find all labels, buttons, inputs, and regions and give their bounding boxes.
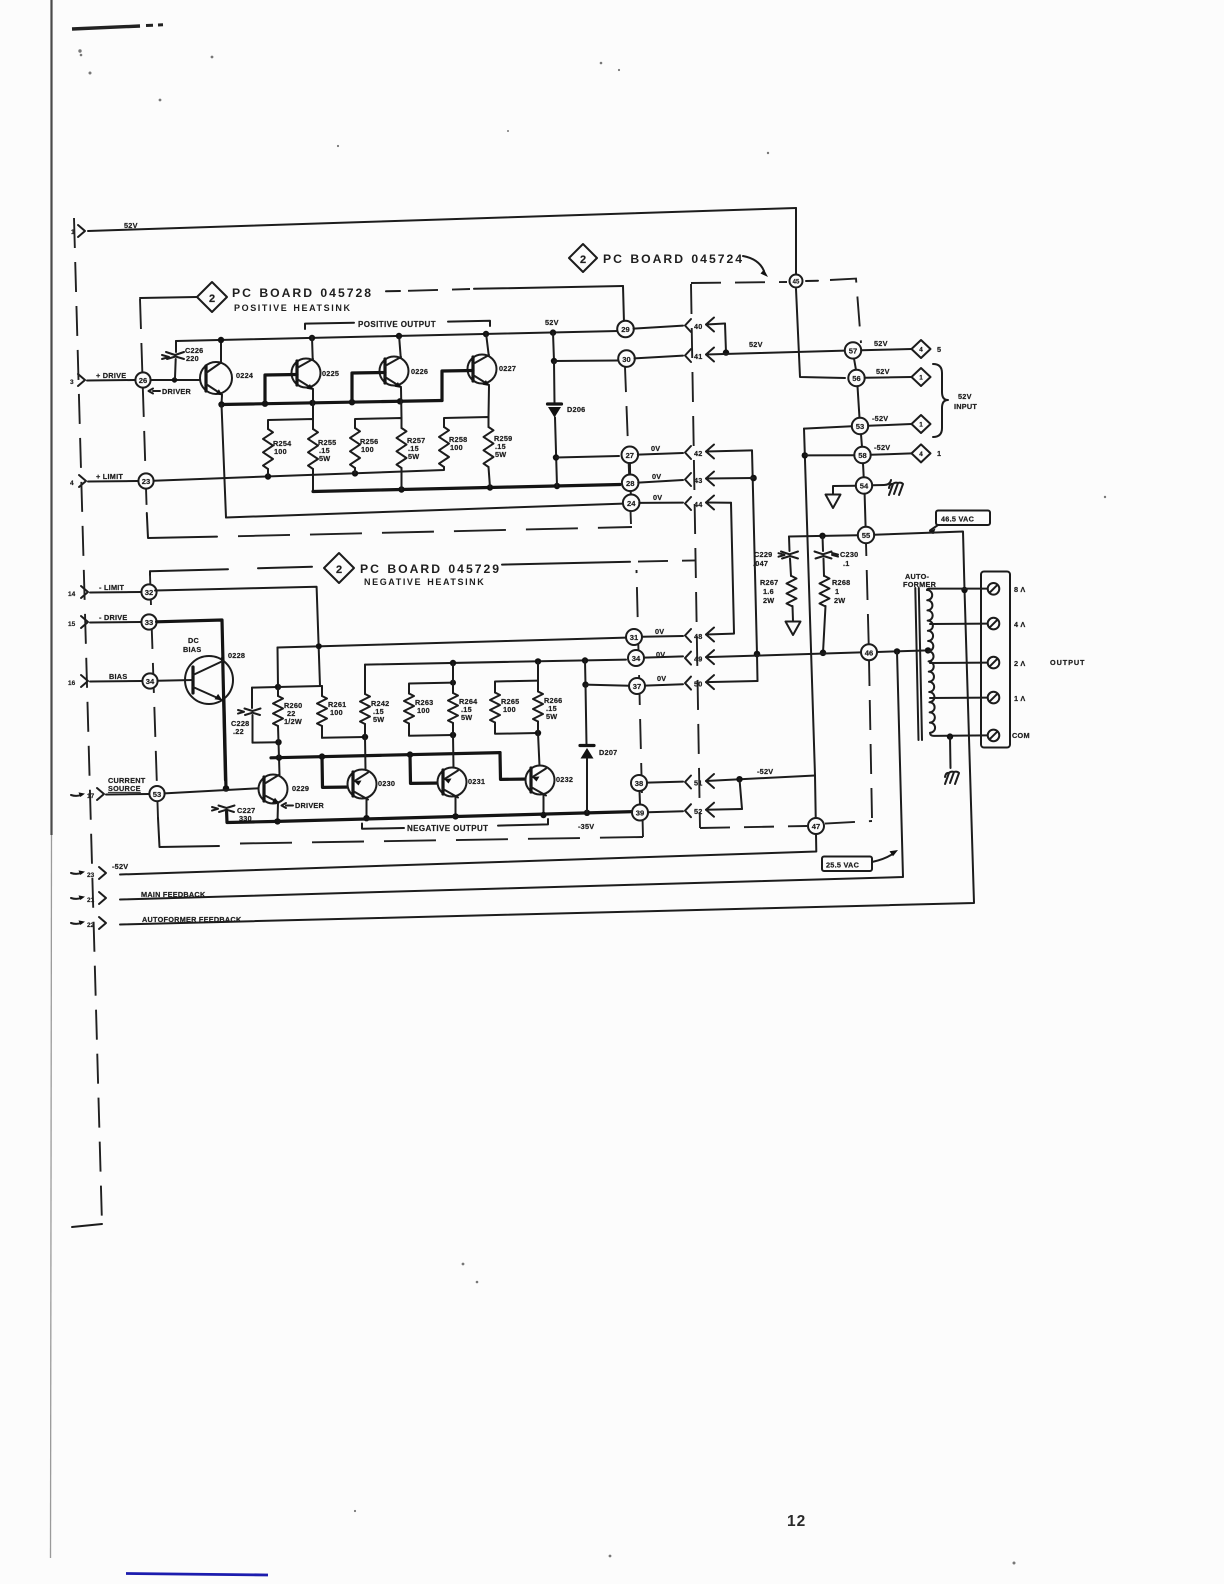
svg-text:100: 100 [417, 706, 430, 715]
svg-text:R268: R268 [832, 578, 850, 587]
svg-text:47: 47 [812, 822, 820, 831]
capacitor C230 .1 [815, 536, 859, 576]
capacitor C226 220 [162, 341, 203, 378]
node 23 [138, 473, 153, 488]
svg-text:52V: 52V [124, 221, 138, 230]
pin 3 connector +DRIVE [70, 371, 126, 386]
dashed bottom edge PC board 045724 [700, 821, 872, 828]
wire Q226 collector lead [399, 335, 401, 357]
svg-text:43: 43 [694, 476, 703, 485]
svg-text:1: 1 [919, 422, 923, 429]
svg-text:52V: 52V [958, 392, 972, 401]
svg-text:PC BOARD 045729: PC BOARD 045729 [360, 562, 501, 576]
svg-text:12: 12 [787, 1513, 806, 1530]
connector arrow 41 [635, 340, 846, 362]
wire pin4 to node 23 [88, 480, 138, 483]
transistor Q230 [348, 770, 396, 800]
wire output bus to node 28 [313, 483, 620, 493]
svg-text:0229: 0229 [292, 784, 309, 793]
svg-text:0231: 0231 [468, 777, 485, 786]
label 46.5 VAC box [928, 511, 991, 535]
svg-text:DC: DC [188, 636, 200, 645]
svg-text:38: 38 [635, 779, 643, 788]
diamond input 4 1 row 58 [912, 444, 942, 462]
label +DRIVER [149, 387, 192, 396]
svg-text:49: 49 [694, 655, 703, 664]
node 28 [622, 475, 639, 492]
wire main feedback riser [120, 651, 903, 899]
node 57 [845, 342, 861, 358]
svg-text:0V: 0V [651, 444, 660, 453]
wire autoformer tap 1 ohm [930, 697, 988, 699]
svg-text:INPUT: INPUT [954, 402, 977, 411]
dashed top edge PC board 045729 [502, 560, 696, 564]
diamond 2 PC BOARD 045729 [150, 553, 501, 587]
pin 4 connector +LIMIT [70, 472, 123, 487]
svg-text:46: 46 [865, 648, 873, 657]
svg-text:-52V: -52V [872, 414, 888, 423]
wire D207 to bottom bus [586, 759, 588, 813]
wire arrow 50 riser to 0V row [756, 654, 759, 681]
svg-text:1.6: 1.6 [763, 587, 774, 596]
resistor R263 100 [404, 694, 433, 724]
dashed boundary into node 45 (PC board 045724 top) [691, 279, 861, 343]
svg-text:NEGATIVE OUTPUT: NEGATIVE OUTPUT [407, 824, 488, 833]
wire Q225 collector lead [311, 337, 314, 359]
terminal 2 ohm [988, 657, 1026, 669]
wire bracket R265 R266 tops [495, 681, 538, 693]
svg-text:100: 100 [330, 708, 343, 717]
svg-text:1 Λ: 1 Λ [1014, 694, 1025, 703]
wire Q227 emitter to resistor bracket [488, 386, 491, 417]
svg-text:-52V: -52V [757, 767, 773, 776]
wire Q225 emitter to resistor bracket [312, 390, 314, 419]
svg-text:2: 2 [580, 254, 586, 266]
bottom blue mark [126, 1574, 268, 1576]
resistor R257 .15 5W [397, 428, 426, 468]
wire riser to Q226 base [352, 373, 385, 403]
earth ground arrow at node 54 [826, 495, 841, 509]
wire R255 bottom lead to output bus [312, 469, 314, 492]
svg-text:52V: 52V [545, 318, 559, 327]
svg-text:MAIN FEEDBACK: MAIN FEEDBACK [141, 890, 206, 899]
svg-text:44: 44 [694, 500, 703, 509]
wire bus R260 top to R261 top [278, 686, 322, 687]
dashed top edge PC board 045728 [386, 286, 623, 291]
svg-text:4: 4 [70, 480, 74, 487]
dashed right edge PC board 045724 [866, 543, 872, 818]
wire pin3 to node 26 [87, 379, 135, 382]
transistor Q228 [185, 651, 245, 780]
svg-text:100: 100 [503, 705, 516, 714]
svg-text:50: 50 [694, 680, 703, 689]
svg-text:52V: 52V [876, 367, 890, 376]
speaker terminal box [981, 572, 1010, 748]
wire R264 top riser [452, 663, 454, 693]
connector arrow 44 [639, 496, 731, 511]
transistor Q231 [438, 768, 486, 798]
svg-text:34: 34 [146, 677, 155, 686]
wire top rail drop to node 45 [795, 208, 797, 274]
node 24 [623, 495, 640, 512]
svg-text:4: 4 [919, 347, 923, 354]
wire Q230 bottom lead [363, 799, 369, 822]
wire R268 bottom to 0V row [820, 606, 827, 656]
node 37 [629, 678, 645, 694]
wire bracket R261 R242 bottoms [322, 734, 368, 740]
svg-text:- DRIVE: - DRIVE [99, 613, 128, 622]
connector arrow 48 [642, 628, 734, 643]
pin 14 connector -LIMIT [68, 583, 125, 598]
svg-text:POSITIVE OUTPUT: POSITIVE OUTPUT [358, 320, 436, 329]
wire pin14 to node 32 [90, 591, 141, 594]
dashed bottom edge PC board 045729 [158, 818, 219, 847]
autoformer winding [927, 590, 935, 733]
resistor R268 1 2W [820, 576, 851, 606]
transistor Q227 [468, 355, 517, 387]
svg-text:-35V: -35V [578, 822, 594, 831]
svg-text:0228: 0228 [228, 651, 245, 660]
svg-text:52: 52 [694, 807, 703, 816]
wire pin16 to node 34 [90, 680, 142, 683]
wire Q226 emitter to resistor bracket [400, 388, 403, 418]
wire node 57 to input diamond 52V [861, 339, 911, 350]
wire R260 top corner to collector rail [277, 648, 280, 688]
dashed right edge PC board 045728 [625, 367, 631, 524]
wire bracket R258 R259 tops [444, 417, 489, 427]
svg-text:1/2W: 1/2W [284, 717, 302, 726]
svg-text:D207: D207 [599, 748, 617, 757]
label AUTO-FORMER [903, 572, 937, 589]
wire D207 anode lead [586, 685, 587, 745]
resistor R261 100 [317, 696, 346, 726]
connector arrow 40 [634, 318, 726, 333]
svg-text:32: 32 [145, 588, 153, 597]
node 33 [141, 614, 156, 629]
resistor R256 100 [350, 428, 378, 468]
svg-text:0V: 0V [653, 493, 662, 502]
wire node 45 down to node 56 row [796, 289, 845, 378]
wire 0V branch to node 37 [582, 661, 629, 688]
wire arrow 44 drop to arrow 48 [731, 503, 734, 633]
wire R242 leads [364, 665, 366, 737]
svg-text:OUTPUT: OUTPUT [1050, 658, 1085, 667]
svg-text:NEGATIVE HEATSINK: NEGATIVE HEATSINK [364, 577, 485, 587]
pin 15 connector -DRIVE [68, 613, 128, 628]
dashed left edge PC board 045728 [140, 299, 147, 513]
node 53 left [149, 786, 164, 801]
node 54 [856, 477, 872, 493]
svg-text:23: 23 [142, 477, 150, 486]
svg-text:8 Λ: 8 Λ [1014, 585, 1025, 594]
wire node 53 to 58 [861, 434, 862, 447]
diamond 2 PC BOARD 045724 [569, 244, 768, 277]
svg-text:0225: 0225 [322, 369, 339, 378]
wire riser to Q232 base [500, 753, 531, 780]
wire pin17 to node 53 left [106, 793, 149, 796]
svg-text:100: 100 [450, 443, 463, 452]
svg-text:4: 4 [919, 451, 923, 458]
svg-text:3: 3 [70, 379, 74, 386]
svg-text:45: 45 [793, 280, 800, 286]
node 29 [617, 321, 634, 338]
svg-text:56: 56 [852, 374, 860, 383]
svg-text:BIAS: BIAS [183, 645, 201, 654]
node 30 [618, 350, 635, 367]
wire node 53 to Q229 base [165, 788, 264, 793]
wire node 54 to chassis ground [872, 480, 891, 485]
autoformer core lines [915, 588, 922, 740]
wire autoformer feedback long row [120, 587, 974, 925]
label 0V rows positive [651, 444, 662, 502]
svg-text:0V: 0V [652, 472, 661, 481]
wire bracket R263 R264 tops [409, 680, 456, 694]
resistor R255 .15 5W [308, 429, 336, 469]
svg-text:C229: C229 [754, 550, 772, 559]
resistor R260 22 1/2W [273, 696, 302, 726]
svg-text:29: 29 [621, 325, 629, 334]
label POSITIVE OUTPUT bracket [305, 320, 490, 329]
svg-text:22: 22 [87, 922, 95, 929]
svg-text:25.5 VAC: 25.5 VAC [826, 861, 860, 870]
wire node 56 to input diamond 52V [865, 367, 912, 378]
svg-text:SOURCE: SOURCE [108, 784, 141, 793]
dashed left edge PC board 045724 [691, 284, 700, 828]
wire 52V heatsink rail [176, 318, 618, 343]
pin 21 connector [71, 892, 106, 904]
svg-text:55: 55 [862, 531, 871, 540]
resistor R266 .15 5W [533, 692, 562, 722]
svg-text:52V: 52V [749, 340, 763, 349]
dashed bottom edge PC board 045728 [147, 513, 217, 538]
wire node 58 to 54 [862, 463, 865, 477]
node 55 [858, 527, 874, 543]
wire node 53 left branch corner [804, 426, 852, 428]
wire R260 bottom to base bus [278, 742, 281, 757]
terminal 4 ohm [988, 618, 1026, 630]
transistor Q224 [200, 362, 254, 396]
svg-text:2W: 2W [834, 596, 845, 605]
brace 52V INPUT [933, 364, 977, 437]
diamond input 1 row 56 [912, 368, 931, 386]
svg-text:- LIMIT: - LIMIT [99, 583, 125, 592]
label NEGATIVE OUTPUT bracket [362, 819, 548, 833]
connector arrow 50 [645, 675, 758, 690]
wire bracket R263 R264 bottoms [409, 723, 456, 738]
svg-text:16: 16 [68, 680, 76, 687]
capacitor C228 .22 [231, 688, 261, 743]
svg-text:R267: R267 [760, 578, 778, 587]
svg-text:+ LIMIT: + LIMIT [96, 472, 123, 481]
wire node 33 -DRIVE thick drop through Q228 [157, 620, 230, 792]
wire node 34 to Q228 base [158, 679, 193, 682]
wire node 27 to 28 [629, 463, 631, 474]
transistor Q225 [292, 359, 340, 391]
svg-text:PC BOARD 045728: PC BOARD 045728 [232, 286, 373, 300]
svg-text:1: 1 [835, 587, 839, 596]
svg-text:39: 39 [636, 809, 644, 818]
node 53 [852, 418, 868, 434]
svg-text:14: 14 [68, 591, 76, 598]
wire autoformer tap 8 ohm [927, 589, 988, 590]
svg-text:52V: 52V [874, 339, 888, 348]
svg-text:26: 26 [139, 376, 147, 385]
resistor R259 .15 5W [484, 427, 513, 467]
wire R256 bottom lead [354, 468, 356, 473]
wire autoformer COM tap [930, 733, 987, 740]
svg-text:.22: .22 [233, 727, 244, 736]
wire pin15 to node 33 [90, 621, 141, 624]
chassis ground m at node 54 [889, 483, 903, 495]
svg-text:2W: 2W [763, 596, 774, 605]
resistor R265 100 [490, 693, 519, 723]
wire collector rail to node 31 [278, 638, 627, 650]
svg-text:5W: 5W [495, 450, 506, 459]
svg-text:DRIVER: DRIVER [295, 801, 325, 810]
svg-text:5W: 5W [546, 712, 557, 721]
wire R266 emitter drop to Q232 [538, 733, 540, 766]
label 0V rows negative [655, 627, 666, 683]
diamond input 1 row 53 [912, 415, 931, 433]
wire node 28 to 24 [630, 491, 632, 494]
wire row to node 24 [226, 504, 623, 518]
svg-text:-52V: -52V [874, 443, 890, 452]
wire autoformer tap 2 ohm [930, 662, 988, 664]
svg-text:5W: 5W [319, 454, 330, 463]
pin 16 connector BIAS [68, 672, 127, 687]
wire 52V to D206 branch [551, 333, 557, 365]
wire Q231 bottom lead [452, 797, 458, 820]
svg-text:C230: C230 [840, 550, 858, 559]
svg-text:5W: 5W [408, 452, 419, 461]
wire node 32 to collector rail [155, 587, 320, 686]
wire COM drop to chassis ground [949, 737, 952, 768]
wire node 30 branch [554, 360, 618, 363]
svg-text:+ DRIVE: + DRIVE [96, 371, 126, 380]
dashed right edge PC board 045729 [637, 570, 644, 837]
wire R254 bottom lead [267, 469, 269, 477]
svg-text:48: 48 [694, 632, 703, 641]
wire Q229 collector riser to base bus [276, 754, 282, 774]
pin 22 connector [71, 917, 106, 929]
wire C228 top link to R260 top [252, 684, 281, 690]
wire bracket R265 R266 bottoms [495, 722, 541, 737]
svg-text:28: 28 [626, 479, 634, 488]
svg-text:15: 15 [68, 621, 76, 628]
node 31 [626, 629, 642, 645]
svg-text:57: 57 [849, 347, 857, 356]
svg-text:5W: 5W [373, 715, 384, 724]
wire R257 bottom lead [401, 468, 403, 490]
svg-text:4 Λ: 4 Λ [1014, 620, 1025, 629]
connector arrow 52 [648, 803, 742, 818]
transistor Q226 [380, 357, 429, 389]
wire riser to Q230 base [322, 757, 353, 788]
diode D206 [548, 404, 586, 418]
wire arrow 40 corner to row 41 [723, 324, 729, 356]
svg-text:53: 53 [856, 422, 864, 431]
wire 52V top rail [88, 208, 796, 231]
node 45 [790, 275, 803, 288]
page border left edge line [51, 0, 52, 1558]
svg-text:42: 42 [694, 449, 703, 458]
svg-text:0226: 0226 [411, 367, 428, 376]
svg-text:58: 58 [858, 451, 866, 460]
svg-text:POSITIVE HEATSINK: POSITIVE HEATSINK [234, 303, 352, 313]
node 47 [808, 818, 824, 834]
connector arrow 42 [638, 445, 752, 460]
wire -52V drop long vertical through node 47 to pin 23 row [120, 429, 816, 875]
svg-text:.047: .047 [753, 559, 768, 568]
svg-text:.1: .1 [843, 559, 850, 568]
svg-text:53: 53 [153, 790, 161, 799]
wire autoformer tap 4 ohm [930, 623, 988, 625]
svg-text:0232: 0232 [556, 775, 573, 784]
wire node 58 left branch [805, 454, 855, 456]
wire Q224 collector to 52V rail [220, 339, 222, 363]
wire R259 bottom lead [489, 467, 491, 488]
wire arrow 42 drop to main 0V row [750, 450, 760, 657]
node 56 [848, 370, 864, 386]
svg-text:220: 220 [186, 354, 199, 363]
wire node 27 branch [556, 456, 619, 458]
connector arrow 49 [644, 650, 861, 665]
node 32 [141, 584, 156, 599]
pin 23 connector [71, 867, 106, 879]
terminal COM [988, 730, 1030, 742]
node 58 [854, 447, 870, 463]
wire corner into node 29 [623, 286, 624, 323]
wire arrow 52 riser to row 51 [740, 779, 743, 809]
wire node 58 to input diamond -52V [871, 443, 912, 455]
svg-text:0V: 0V [657, 674, 666, 683]
svg-text:DRIVER: DRIVER [162, 387, 192, 396]
node 39 [632, 805, 648, 821]
resistor R264 .15 5W [448, 693, 478, 723]
svg-text:100: 100 [361, 445, 374, 454]
wire D206 cathode to output bus [553, 418, 559, 487]
wire node 54 to earth arrow [833, 486, 856, 494]
capacitor C227 330 [212, 806, 255, 824]
wire +LIMIT bus to R258 [154, 467, 444, 481]
wire D206 anode lead [553, 361, 556, 403]
terminal 1 ohm [988, 692, 1026, 704]
wire riser to Q225 base [265, 375, 297, 404]
top-left corner mark [72, 25, 163, 29]
svg-text:34: 34 [632, 654, 641, 663]
svg-text:0V: 0V [655, 627, 664, 636]
wire bracket R254 R255 tops [268, 419, 313, 429]
svg-text:33: 33 [145, 618, 153, 627]
svg-text:2 Λ: 2 Λ [1014, 659, 1025, 668]
wire 0V row node 46 to autoformer [877, 647, 931, 654]
wire C228 bottom link to R260 bottom [253, 739, 282, 745]
svg-text:54: 54 [860, 482, 869, 491]
wire 0V output bus negative [365, 657, 626, 666]
wire node 38 to 39 [639, 791, 642, 805]
connector arrow 43 [638, 472, 753, 487]
wire riser to Q227 base [442, 371, 473, 401]
wire node 53 to input diamond -52V [868, 414, 911, 426]
resistor R254 100 [263, 429, 292, 469]
svg-text:37: 37 [633, 682, 641, 691]
node 26 [135, 372, 150, 387]
svg-text:31: 31 [630, 633, 639, 642]
capacitor C229 .047 [753, 537, 798, 577]
wire Q232 bottom lead [540, 795, 546, 819]
wire node 56 to 53 [858, 386, 860, 418]
svg-text:-52V: -52V [112, 862, 128, 871]
